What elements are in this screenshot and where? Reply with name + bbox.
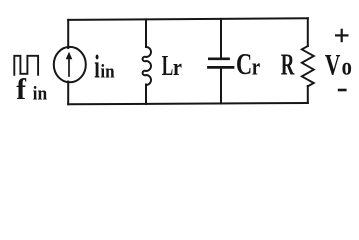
- wire bottom rail: [68, 103, 308, 104]
- capacitor Cr top plate: [209, 57, 228, 60]
- label minus sign: [338, 89, 347, 92]
- svg-text:o: o: [342, 53, 352, 80]
- wire left rail below current source: [67, 82, 69, 105]
- svg-text:C: C: [236, 47, 252, 81]
- svg-text:V: V: [325, 48, 341, 81]
- resistor R wire bottom: [307, 86, 309, 103]
- svg-text:in: in: [100, 60, 114, 81]
- svg-text:r: r: [252, 53, 261, 80]
- inductor Lr wire bottom: [145, 85, 147, 104]
- current source circle: [54, 47, 86, 82]
- svg-text:in: in: [33, 83, 48, 104]
- resistor R wire top: [307, 18, 309, 46]
- capacitor Cr wire top: [220, 19, 222, 58]
- inductor Lr coil: [143, 47, 151, 85]
- svg-text:L: L: [162, 51, 173, 83]
- svg-text:i: i: [94, 48, 100, 84]
- svg-text:r: r: [173, 54, 182, 81]
- svg-text:R: R: [281, 47, 295, 82]
- current source arrow: [66, 52, 73, 76]
- capacitor Cr wire bottom: [220, 69, 222, 104]
- square-wave source symbol: [14, 56, 38, 75]
- resistor R zigzag: [302, 46, 314, 86]
- wire top rail: [68, 18, 308, 20]
- label plus sign: [335, 29, 349, 43]
- svg-text:f: f: [16, 74, 27, 106]
- capacitor Cr bottom plate: [209, 66, 234, 69]
- inductor Lr wire top: [145, 19, 147, 47]
- wire left rail above current source: [67, 20, 69, 48]
